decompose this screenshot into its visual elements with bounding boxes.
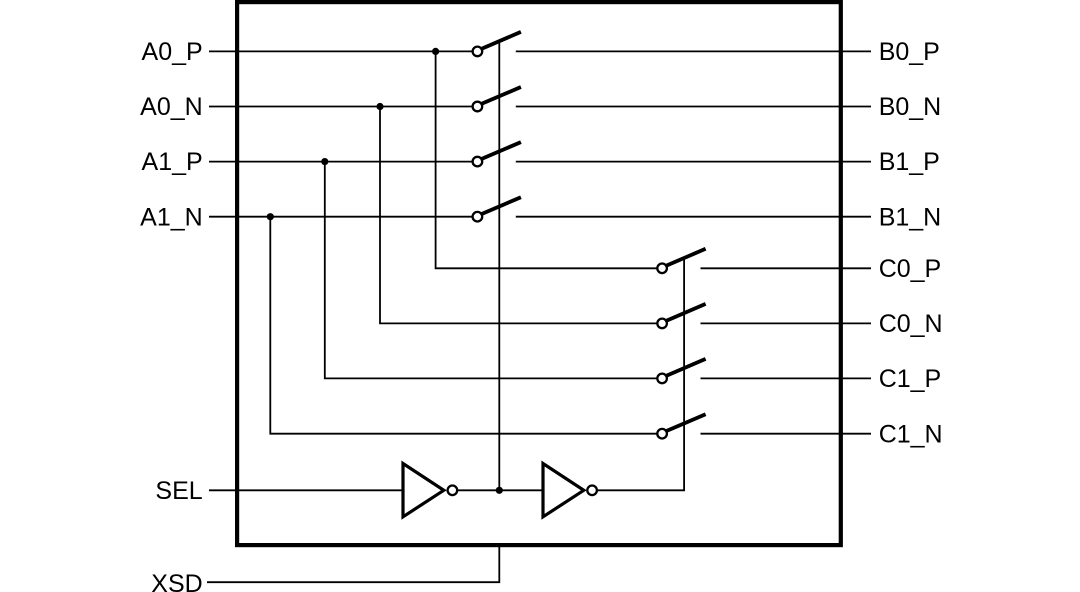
svg-text:A0_P: A0_P xyxy=(142,38,203,66)
wire C1_N output xyxy=(701,433,872,435)
wire A1_N branch to C1_N xyxy=(270,217,658,434)
wire A1_P input xyxy=(209,161,474,163)
switch SW7 A1_P-C1_P bubble xyxy=(657,374,667,384)
node A0_N branch junction xyxy=(376,103,383,110)
inverter U1 bubble xyxy=(448,486,458,496)
svg-text:A1_N: A1_N xyxy=(140,203,203,231)
switch SW4 arm xyxy=(481,197,521,214)
svg-text:SEL: SEL xyxy=(155,477,202,505)
svg-text:A1_P: A1_P xyxy=(142,148,203,176)
switch SW6 arm xyxy=(665,304,705,321)
wire A0_P input xyxy=(209,50,474,52)
switch SW7 arm xyxy=(665,359,705,376)
wire A1_N input xyxy=(209,216,474,218)
wire C0_N output xyxy=(701,322,872,324)
svg-text:A0_N: A0_N xyxy=(140,93,203,121)
switch SW8 arm xyxy=(665,414,705,431)
wire C0_P output xyxy=(701,267,872,269)
wire B1_P output xyxy=(516,161,871,163)
wire A0_P branch to C0_P xyxy=(436,51,659,268)
wire A0_N branch to C0_N xyxy=(380,107,659,324)
wire B0_N output xyxy=(516,106,871,108)
inverter U2 xyxy=(543,464,584,517)
switch SW5 A0_P-C0_P bubble xyxy=(657,264,667,274)
wire A0_N input xyxy=(209,106,474,108)
switch SW2 A0_N-B0_N bubble xyxy=(473,102,483,112)
svg-text:C1_P: C1_P xyxy=(879,365,942,393)
node SEL control junction xyxy=(496,487,503,494)
inverter U2 bubble xyxy=(587,486,597,496)
switch SW4 A1_N-B1_N bubble xyxy=(473,212,483,222)
wire XSD input xyxy=(207,544,499,582)
svg-text:C1_N: C1_N xyxy=(879,420,943,448)
switch SW8 A1_N-C1_N bubble xyxy=(657,429,667,439)
svg-text:B1_P: B1_P xyxy=(879,148,940,176)
node A1_P branch junction xyxy=(321,158,328,165)
switch SW3 A1_P-B1_P bubble xyxy=(473,157,483,167)
wire SEL input xyxy=(209,489,404,491)
switch SW6 A0_N-C0_N bubble xyxy=(657,319,667,329)
wire A1_P branch to C1_P xyxy=(325,162,659,379)
inverter U1 xyxy=(403,464,444,517)
switch SW1 A0_P-B0_P bubble xyxy=(473,47,483,57)
switch SW3 arm xyxy=(481,142,521,159)
wire B1_N output xyxy=(516,216,871,218)
svg-text:B1_N: B1_N xyxy=(879,203,942,231)
node A1_N branch junction xyxy=(267,213,274,220)
svg-text:XSD: XSD xyxy=(151,570,202,592)
wire inverter U2 output to C control xyxy=(598,258,685,490)
svg-text:B0_P: B0_P xyxy=(879,38,940,66)
wire C1_P output xyxy=(701,377,872,379)
svg-text:C0_P: C0_P xyxy=(879,255,942,283)
wire B control line xyxy=(498,41,500,490)
wire inverter U1 to U2 xyxy=(457,489,544,491)
chip outline box xyxy=(237,2,841,545)
switch SW5 arm xyxy=(665,249,705,266)
switch SW1 arm xyxy=(481,32,521,49)
svg-text:C0_N: C0_N xyxy=(879,310,943,338)
node A0_P branch junction xyxy=(432,48,439,55)
switch SW2 arm xyxy=(481,87,521,104)
wire B0_P output xyxy=(516,50,871,52)
svg-text:B0_N: B0_N xyxy=(879,93,942,121)
